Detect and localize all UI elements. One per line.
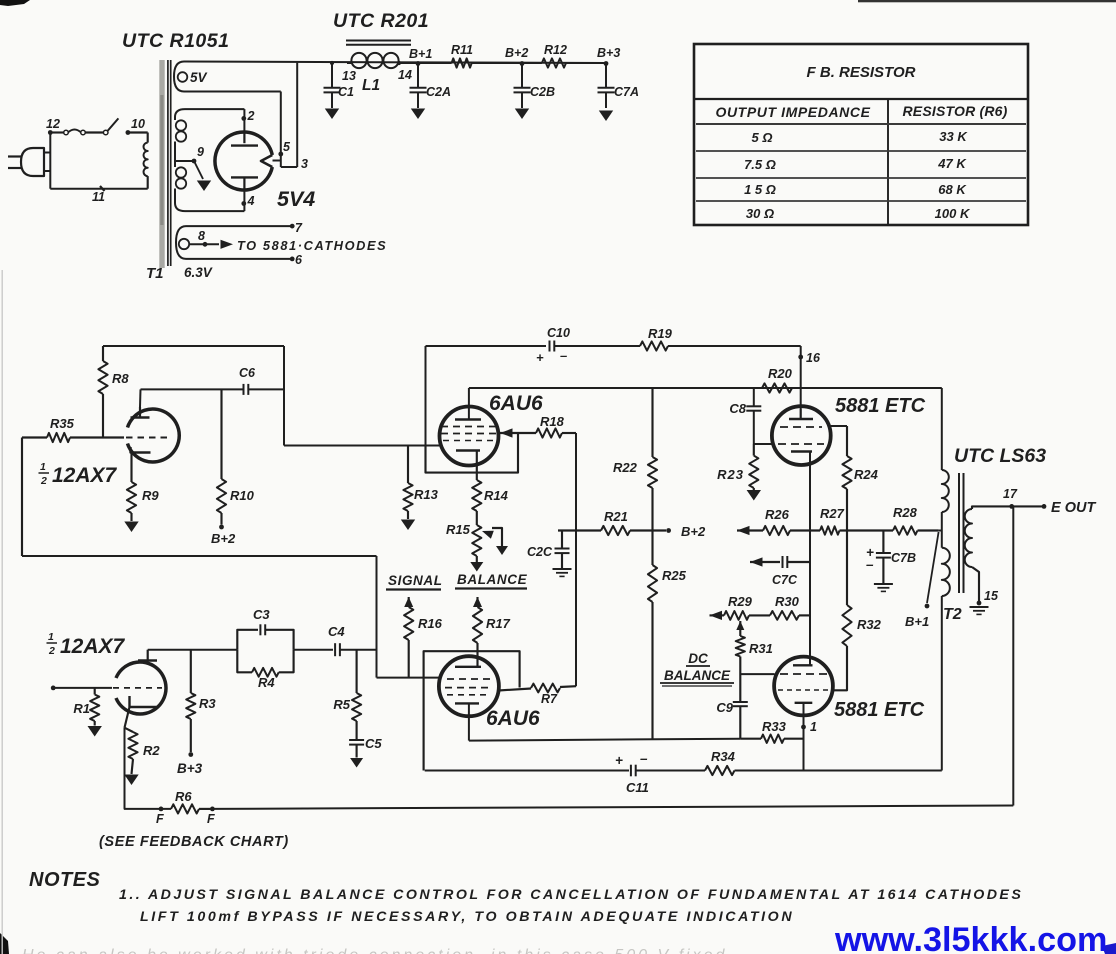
svg-text:R17: R17: [486, 616, 511, 631]
svg-text:2: 2: [40, 475, 47, 487]
svg-text:R16: R16: [418, 616, 443, 631]
svg-text:30 Ω: 30 Ω: [746, 206, 774, 221]
svg-text:C3: C3: [253, 607, 270, 622]
svg-text:B+1: B+1: [905, 614, 929, 629]
svg-text:R33: R33: [762, 719, 787, 734]
svg-text:C2B: C2B: [530, 85, 555, 99]
svg-text:5V4: 5V4: [277, 187, 315, 211]
svg-text:F: F: [156, 812, 164, 826]
svg-text:R22: R22: [613, 460, 638, 475]
svg-text:4: 4: [247, 194, 255, 208]
svg-text:B+2: B+2: [505, 46, 528, 60]
svg-text:www.3l5kkk.com: www.3l5kkk.com: [834, 921, 1107, 954]
svg-text:6.3V: 6.3V: [184, 265, 213, 280]
svg-text:R25: R25: [662, 568, 687, 583]
svg-text:3: 3: [301, 157, 308, 171]
svg-text:R32: R32: [857, 617, 882, 632]
svg-text:UTC R201: UTC R201: [333, 10, 429, 32]
svg-text:17: 17: [1003, 487, 1018, 501]
svg-text:B+1: B+1: [409, 47, 432, 61]
svg-text:C2C: C2C: [527, 545, 553, 559]
svg-text:DC: DC: [688, 651, 708, 666]
svg-text:C8: C8: [729, 401, 746, 416]
svg-text:2: 2: [48, 645, 55, 657]
svg-text:R9: R9: [142, 488, 159, 503]
svg-text:5881 ETC: 5881 ETC: [834, 699, 925, 721]
svg-text:+: +: [536, 350, 544, 365]
svg-text:C7C: C7C: [772, 573, 798, 587]
svg-text:UTC LS63: UTC LS63: [954, 445, 1046, 467]
svg-text:–: –: [866, 557, 874, 572]
svg-text:UTC R1051: UTC R1051: [122, 30, 229, 52]
svg-text:1: 1: [40, 461, 46, 473]
svg-text:B+3: B+3: [177, 761, 203, 776]
svg-text:R23: R23: [717, 467, 744, 482]
svg-text:12AX7: 12AX7: [52, 464, 118, 487]
svg-text:16: 16: [806, 351, 821, 365]
svg-text:6AU6: 6AU6: [489, 392, 543, 415]
svg-text:R28: R28: [893, 505, 918, 520]
svg-text:R24: R24: [854, 467, 879, 482]
svg-text:9: 9: [197, 145, 204, 159]
svg-text:C10: C10: [547, 326, 570, 340]
svg-text:L1: L1: [362, 77, 380, 94]
svg-text:15: 15: [984, 589, 999, 603]
svg-text:14: 14: [398, 68, 412, 82]
svg-text:RESISTOR (R6): RESISTOR (R6): [902, 103, 1007, 119]
svg-text:LIFT 100mf BYPASS IF NECES: LIFT 100mf BYPASS IF NECESSARY, TO OBTAI…: [140, 909, 794, 925]
svg-text:R12: R12: [544, 43, 567, 57]
svg-text:C7B: C7B: [891, 551, 916, 565]
svg-text:68 K: 68 K: [938, 182, 967, 197]
svg-text:R30: R30: [775, 594, 800, 609]
svg-text:R19: R19: [648, 326, 673, 341]
svg-text:8: 8: [198, 229, 205, 243]
svg-text:R1: R1: [73, 701, 90, 716]
svg-text:2: 2: [247, 109, 255, 123]
svg-text:B+3: B+3: [597, 46, 620, 60]
svg-text:B+2: B+2: [211, 531, 236, 546]
svg-text:C5: C5: [365, 736, 382, 751]
svg-text:1.. ADJUST SIGNAL BALANCE: 1.. ADJUST SIGNAL BALANCE CONTROL FOR CA…: [119, 887, 1023, 903]
svg-text:C7A: C7A: [614, 85, 639, 99]
svg-text:6: 6: [295, 253, 303, 267]
svg-text:C1: C1: [338, 85, 354, 99]
svg-text:–: –: [560, 348, 567, 363]
svg-text:R7: R7: [541, 692, 558, 706]
svg-text:F: F: [207, 812, 215, 826]
svg-text:1 5 Ω: 1 5 Ω: [744, 182, 776, 197]
svg-text:5881 ETC: 5881 ETC: [835, 395, 926, 417]
svg-text:+: +: [615, 753, 623, 768]
svg-text:13: 13: [342, 69, 356, 83]
svg-text:–: –: [640, 751, 648, 766]
svg-text:100 K: 100 K: [935, 206, 971, 221]
svg-text:F B. RESISTOR: F B. RESISTOR: [807, 64, 916, 81]
svg-text:R21: R21: [604, 509, 628, 524]
svg-text:BALANCE: BALANCE: [457, 572, 528, 587]
svg-text:T1: T1: [146, 265, 164, 282]
svg-text:R34: R34: [711, 749, 736, 764]
svg-text:C4: C4: [328, 624, 345, 639]
svg-text:NOTES: NOTES: [29, 869, 101, 891]
svg-text:R8: R8: [112, 371, 129, 386]
svg-text:C9: C9: [716, 700, 733, 715]
svg-text:E OUT: E OUT: [1051, 500, 1096, 516]
svg-text:SIGNAL: SIGNAL: [388, 573, 443, 588]
svg-text:R29: R29: [728, 594, 753, 609]
svg-text:He can also be worked wit: He can also be worked with triode connec…: [22, 947, 727, 954]
svg-text:12AX7: 12AX7: [60, 635, 126, 658]
svg-text:C2A: C2A: [426, 85, 451, 99]
svg-text:1: 1: [48, 631, 54, 643]
svg-text:B+2: B+2: [681, 524, 706, 539]
svg-text:R2: R2: [143, 743, 160, 758]
svg-text:TO 5881·CATHODES: TO 5881·CATHODES: [237, 238, 387, 253]
svg-text:R6: R6: [175, 789, 192, 804]
svg-text:OUTPUT IMPEDANCE: OUTPUT IMPEDANCE: [715, 104, 870, 120]
svg-text:C11: C11: [626, 780, 649, 795]
svg-text:5: 5: [283, 140, 291, 154]
svg-text:R15: R15: [446, 522, 471, 537]
svg-text:47 K: 47 K: [937, 156, 967, 171]
svg-text:BALANCE: BALANCE: [664, 668, 731, 683]
svg-text:12: 12: [46, 117, 60, 131]
svg-text:R11: R11: [451, 43, 473, 57]
svg-text:33 K: 33 K: [939, 129, 968, 144]
svg-text:C6: C6: [239, 366, 256, 380]
svg-text:T2: T2: [943, 606, 962, 623]
svg-text:R10: R10: [230, 488, 255, 503]
svg-text:R3: R3: [199, 696, 216, 711]
svg-text:R13: R13: [414, 487, 439, 502]
svg-text:R20: R20: [768, 366, 793, 381]
svg-text:5 Ω: 5 Ω: [752, 130, 773, 145]
svg-text:R26: R26: [765, 507, 790, 522]
svg-text:5V: 5V: [190, 70, 208, 85]
svg-text:10: 10: [131, 117, 145, 131]
svg-text:R14: R14: [484, 488, 509, 503]
svg-text:11: 11: [92, 190, 105, 204]
svg-text:R31: R31: [749, 641, 773, 656]
svg-text:R18: R18: [540, 414, 565, 429]
svg-text:6AU6: 6AU6: [486, 707, 540, 730]
svg-text:(SEE FEEDBACK CHART): (SEE FEEDBACK CHART): [99, 834, 289, 850]
svg-text:R35: R35: [50, 416, 75, 431]
svg-text:7.5 Ω: 7.5 Ω: [744, 157, 776, 172]
svg-text:7: 7: [295, 221, 303, 235]
svg-text:1: 1: [810, 720, 817, 734]
svg-text:R5: R5: [333, 697, 350, 712]
svg-text:R4: R4: [258, 675, 275, 690]
svg-text:R27: R27: [820, 506, 845, 521]
